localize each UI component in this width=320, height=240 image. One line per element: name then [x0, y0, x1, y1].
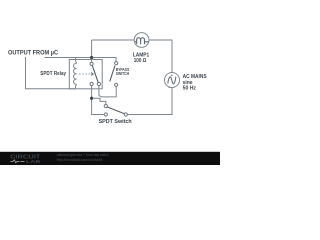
SPDT switch blade: [107, 107, 124, 114]
node: junction top (lamp / relay common / bypass): [90, 56, 93, 59]
AC source plus mark: [171, 74, 173, 76]
svg-text:http://circuitlab.com/c/uv4w93: http://circuitlab.com/c/uv4w93: [57, 158, 103, 162]
SPDT switch terminal right: [124, 113, 127, 116]
svg-text:OUTPUT FROM µC: OUTPUT FROM µC: [8, 49, 58, 56]
wire: AC mains bottom return: [127, 88, 172, 115]
svg-text:SPDT Switch: SPDT Switch: [99, 119, 132, 125]
wire: coil top stub: [76, 58, 77, 64]
relay linkage arrow: [91, 73, 93, 76]
svg-text:Three way switch: Three way switch: [86, 153, 109, 157]
relay throw terminal right: [97, 82, 100, 85]
wire: bus junction to SPDT top: [92, 98, 106, 104]
relay common terminal: [90, 62, 93, 65]
relay linkage dashes: [79, 73, 91, 75]
svg-text:LAB: LAB: [26, 159, 41, 164]
AC source minus mark: [168, 87, 170, 89]
bypass switch terminal top: [115, 62, 118, 65]
svg-text:SWITCH: SWITCH: [116, 71, 129, 76]
svg-text:SPDT Relay: SPDT Relay: [40, 71, 67, 77]
svg-text:100 Ω: 100 Ω: [134, 58, 147, 64]
bypass switch terminal bottom: [115, 83, 118, 86]
lamp LAMP1: [134, 33, 149, 48]
wire: traveler 1 (relay left throw to SPDT left): [92, 86, 105, 115]
SPDT switch terminal left: [104, 113, 107, 116]
wire: relay common stub: [91, 58, 93, 63]
relay throw terminal left: [90, 82, 93, 85]
relay box: [69, 60, 102, 89]
SPDT switch terminal top: [104, 104, 107, 107]
watermark bar: [0, 152, 220, 165]
wire: lamp right to AC source: [149, 40, 172, 73]
relay armature: [92, 65, 98, 82]
bypass switch blade: [110, 66, 115, 82]
wire: microcontroller output left leg: [26, 57, 77, 89]
lamp filament glyph: [135, 38, 149, 44]
svg-text:utkarshphirke /: utkarshphirke /: [57, 153, 86, 157]
wire: relay right throw to bypass bottom: [99, 86, 116, 97]
AC source sine glyph: [168, 77, 176, 84]
node: junction traveler 1: [90, 97, 93, 100]
wire: microcontroller output top rail: [45, 58, 117, 62]
svg-text:50 Hz: 50 Hz: [183, 86, 197, 92]
AC source V1: [165, 73, 180, 88]
wire: lamp drop to junction: [92, 40, 135, 58]
logo: waveform: [10, 160, 24, 163]
relay coil L1: [74, 63, 77, 84]
